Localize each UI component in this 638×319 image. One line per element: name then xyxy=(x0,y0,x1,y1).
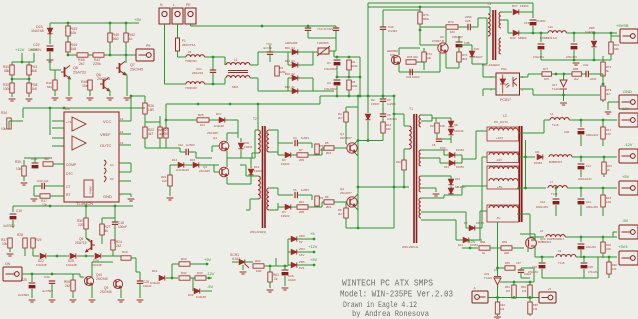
capacitor C4 1u50V upper xyxy=(295,140,297,146)
resistor R9 2k2 xyxy=(315,196,319,206)
resistor R60 100 xyxy=(608,257,610,262)
ground xyxy=(118,300,125,302)
wire xyxy=(232,261,239,263)
wire xyxy=(336,66,338,77)
capacitor C29 470u/16V xyxy=(583,257,585,262)
wire xyxy=(34,185,42,187)
inductor L11 BOBBIN2.6-6 xyxy=(548,31,566,33)
svg-text:10k: 10k xyxy=(1,127,7,131)
wire xyxy=(277,152,279,155)
capacitor C32 1uF xyxy=(42,183,44,189)
svg-text:BOBBIN5-5: BOBBIN5-5 xyxy=(538,241,552,244)
svg-text:D11: D11 xyxy=(535,150,540,154)
svg-text:C3B: C3B xyxy=(464,41,470,45)
svg-text:R11: R11 xyxy=(299,200,304,204)
svg-text:100: 100 xyxy=(544,77,549,81)
wire T3 pins right top xyxy=(501,11,512,13)
diode B01_03 xyxy=(292,62,298,67)
wire xyxy=(432,117,436,119)
svg-text:C1: C1 xyxy=(110,163,114,167)
wire +12V out xyxy=(519,132,545,134)
svg-text:470u/16V: 470u/16V xyxy=(533,55,544,59)
svg-text:FR102: FR102 xyxy=(281,162,290,166)
wire xyxy=(462,158,472,160)
wire mid bus y=104 xyxy=(166,103,320,105)
svg-text:C8: C8 xyxy=(432,143,436,147)
svg-text:2u2/50V: 2u2/50V xyxy=(18,293,29,297)
wire xyxy=(67,52,69,55)
wire xyxy=(593,48,595,60)
diode B01_01 xyxy=(292,88,298,93)
thyristor SCR1 IL343 xyxy=(239,259,245,264)
ground xyxy=(267,290,274,292)
wire R34 to U3 pin1 xyxy=(8,121,10,129)
svg-text:AMPL086: AMPL086 xyxy=(285,41,298,45)
svg-text:10k: 10k xyxy=(82,84,88,88)
svg-text:R19: R19 xyxy=(181,257,187,261)
capacitor YC3 4n7/1kV xyxy=(305,28,311,30)
wire xyxy=(125,42,127,55)
zener diode ZD5 6V2 xyxy=(291,262,297,267)
wire xyxy=(540,50,542,60)
svg-text:R6: R6 xyxy=(325,195,329,199)
wire xyxy=(420,44,438,46)
resistor RT8 200 xyxy=(406,60,416,64)
svg-text:10k: 10k xyxy=(500,307,505,311)
svg-text:5k: 5k xyxy=(105,229,109,233)
resistor R28 2k2 xyxy=(23,238,27,248)
wire bulk rail top xyxy=(334,56,360,58)
svg-text:FR153: FR153 xyxy=(456,165,464,169)
ground xyxy=(7,254,14,256)
ground xyxy=(494,317,501,319)
wire xyxy=(421,175,451,177)
wire varistor to bulk caps xyxy=(329,50,334,52)
wire xyxy=(611,35,620,37)
capacitor C10b 1800u/16V xyxy=(555,188,557,197)
resistor R32 2k2 xyxy=(179,276,190,280)
svg-text:R60: R60 xyxy=(612,263,617,267)
svg-text:1k5: 1k5 xyxy=(71,47,77,51)
wire xyxy=(297,194,312,196)
wire -12V channel xyxy=(519,156,536,158)
wire xyxy=(565,236,617,238)
svg-text:10R: 10R xyxy=(440,124,445,128)
svg-text:2SC945: 2SC945 xyxy=(97,77,110,81)
wire +5V rail top-left xyxy=(50,22,139,24)
wire xyxy=(47,255,69,257)
svg-text:VREF: VREF xyxy=(100,132,111,137)
resistor R43 62k xyxy=(67,23,69,26)
svg-text:10k: 10k xyxy=(533,307,538,311)
svg-text:C3: C3 xyxy=(327,81,331,85)
svg-text:12: 12 xyxy=(120,117,124,121)
svg-text:Q10: Q10 xyxy=(540,237,546,241)
resistor R30 220 xyxy=(84,218,88,229)
svg-text:560: 560 xyxy=(113,37,119,41)
capacitor C10 1u/50V xyxy=(186,149,188,155)
svg-text:+12V: +12V xyxy=(620,106,630,111)
svg-text:R77: R77 xyxy=(543,67,549,71)
resistor R17b 120 xyxy=(602,120,604,127)
svg-text:+5V: +5V xyxy=(30,47,38,52)
svg-text:1N4748: 1N4748 xyxy=(31,29,44,33)
wire Q1 emitter xyxy=(355,153,358,156)
svg-text:1K2: 1K2 xyxy=(200,123,205,127)
wire xyxy=(224,57,226,65)
wire xyxy=(179,148,181,152)
resistor R61 1k xyxy=(268,272,272,282)
svg-text:15R: 15R xyxy=(148,108,155,112)
svg-text:1N4148: 1N4148 xyxy=(150,281,160,285)
ground xyxy=(9,99,16,101)
svg-text:L3: L3 xyxy=(503,114,507,118)
svg-text:Q7: Q7 xyxy=(130,63,135,67)
svg-text:1k5: 1k5 xyxy=(522,289,527,293)
wire -5V to choke xyxy=(480,239,482,241)
wire xyxy=(398,48,400,55)
diode D3 FR102 xyxy=(285,152,291,157)
wire +3V3 junctions xyxy=(541,257,543,262)
wire xyxy=(420,26,446,28)
diode D31 FR107 xyxy=(469,51,474,57)
connector PE xyxy=(185,8,196,24)
capacitor C12 220u/16V xyxy=(580,237,582,242)
svg-text:22nF: 22nF xyxy=(590,77,597,81)
wire long vertical x=394 xyxy=(393,96,395,228)
svg-text:D15: D15 xyxy=(190,158,196,162)
ground xyxy=(21,183,28,185)
wire xyxy=(421,219,456,221)
wire xyxy=(608,274,610,278)
wire 5V rect to choke xyxy=(462,185,476,187)
svg-text:Q8: Q8 xyxy=(73,66,78,70)
wire TL431 ref rail xyxy=(533,94,600,96)
svg-text:1N4148: 1N4148 xyxy=(36,263,47,267)
svg-text:+5V: +5V xyxy=(134,17,142,22)
svg-text:RT8 200: RT8 200 xyxy=(407,55,418,59)
svg-text:4k7: 4k7 xyxy=(606,92,611,96)
wire xyxy=(613,256,617,258)
svg-text:+12V: +12V xyxy=(466,239,476,244)
svg-text:L4: L4 xyxy=(550,112,554,116)
resistor R63 1k5 xyxy=(528,285,532,298)
svg-text:B01_01: B01_01 xyxy=(285,85,295,89)
svg-text:R64: R64 xyxy=(500,303,505,307)
wire xyxy=(297,142,312,144)
wire PH1 pin1 to rail xyxy=(520,76,529,78)
wire PE to earth bus xyxy=(190,24,192,26)
wire xyxy=(214,171,219,173)
wire xyxy=(567,187,617,189)
wire xyxy=(451,194,462,196)
resistor RT6 680k xyxy=(418,12,422,24)
zener diode D23 1N4748 xyxy=(47,28,52,34)
resistor R25 1K2 xyxy=(197,118,209,122)
resistor R15 10R xyxy=(435,123,439,133)
svg-text:1NF/1kV: 1NF/1kV xyxy=(387,117,397,121)
wire xyxy=(120,288,122,298)
L3 winding +12V xyxy=(487,127,519,141)
wire xyxy=(114,206,116,222)
wire TL431 ref rail 2 xyxy=(500,281,534,283)
ground xyxy=(47,60,54,62)
svg-text:-12V: -12V xyxy=(496,158,502,162)
diode D22b 1N4148 xyxy=(194,288,200,293)
svg-text:2k7: 2k7 xyxy=(338,116,343,120)
diode B01_02 xyxy=(292,75,298,80)
wire xyxy=(288,251,291,253)
svg-text:Drawn in Eagle 4.12: Drawn in Eagle 4.12 xyxy=(343,302,417,310)
resistor R19b 1k xyxy=(121,256,131,260)
svg-text:1N4148: 1N4148 xyxy=(214,124,224,128)
wire +5V feed xyxy=(33,53,35,62)
wire xyxy=(212,145,219,147)
wire half-bridge vertical x=358 xyxy=(357,96,359,228)
svg-text:C6: C6 xyxy=(387,113,391,117)
wire xyxy=(166,277,178,279)
wire xyxy=(51,283,53,298)
svg-text:2SA733: 2SA733 xyxy=(73,71,86,75)
resistor R38 1k8 xyxy=(27,83,31,93)
svg-text:B01_04: B01_04 xyxy=(285,46,295,50)
capacitor C37 100uF xyxy=(518,270,524,272)
svg-text:C42: C42 xyxy=(583,63,589,67)
svg-text:FR153: FR153 xyxy=(456,148,464,152)
resistor R50 1k xyxy=(479,246,490,250)
resistor R29 2k2 xyxy=(31,238,35,248)
svg-text:2SC945: 2SC945 xyxy=(199,169,210,173)
wire xyxy=(284,266,286,270)
resistor R45 2k7 xyxy=(77,53,88,57)
resistor R27 5k xyxy=(100,224,104,235)
L3 winding -5V xyxy=(487,205,519,222)
wire xyxy=(345,107,347,112)
shunt regulator U17 TL431 xyxy=(560,80,567,87)
resistor RT4 10k xyxy=(422,52,426,62)
wire xyxy=(613,187,617,189)
svg-text:220: 220 xyxy=(78,223,84,227)
svg-text:1N4728: 1N4728 xyxy=(585,30,595,34)
op-amp error amplifier 2 inside U3 xyxy=(72,136,86,150)
wire xyxy=(169,165,171,175)
wire xyxy=(497,285,499,298)
svg-text:B01_02: B01_02 xyxy=(285,72,295,76)
svg-text:R25: R25 xyxy=(198,113,204,117)
svg-text:L: L xyxy=(173,3,175,7)
wire xyxy=(54,90,56,96)
ground xyxy=(240,272,247,274)
svg-text:1800u/16V: 1800u/16V xyxy=(586,206,598,209)
opto transistor inside PH1 xyxy=(513,77,517,87)
svg-text:250V/T5A: 250V/T5A xyxy=(182,43,195,47)
transistor Q1 2SC4077 upper xyxy=(347,143,357,153)
svg-text:22R: 22R xyxy=(606,247,611,251)
capacitor C39 1N/4kV xyxy=(382,10,384,27)
resistor R48 560 xyxy=(109,23,111,33)
wire xyxy=(580,205,582,216)
wire N down xyxy=(164,24,166,57)
svg-text:PC_OUT2: PC_OUT2 xyxy=(494,120,508,124)
wire Q8 base xyxy=(50,69,61,71)
resistor R34 10k xyxy=(7,118,11,129)
diode D17b 1N4148 xyxy=(219,117,225,122)
wire VCC net xyxy=(130,96,132,121)
svg-text:C5027-R: C5027-R xyxy=(432,39,445,43)
transistor Q5 2SA715 xyxy=(86,238,95,251)
svg-text:-5V: -5V xyxy=(622,218,629,223)
wire T3 primary xyxy=(486,18,488,45)
svg-text:L1: L1 xyxy=(234,58,238,62)
ground xyxy=(573,63,580,65)
wire xyxy=(423,48,425,52)
wire xyxy=(49,108,51,135)
wire xyxy=(470,26,478,28)
wire xyxy=(419,7,421,12)
svg-text:220k: 220k xyxy=(93,62,101,66)
svg-text:1u250V: 1u250V xyxy=(387,102,396,106)
transistor Q4 2SC945 xyxy=(219,167,229,177)
wire xyxy=(72,274,74,280)
wire xyxy=(421,211,466,213)
capacitor C20 1800u/16V xyxy=(580,120,582,127)
ground xyxy=(560,103,567,105)
svg-text:R63: R63 xyxy=(521,285,526,289)
wire xyxy=(34,195,40,197)
svg-text:PE: PE xyxy=(186,3,191,7)
wire xyxy=(541,269,543,278)
wire choke out bottom xyxy=(250,77,258,79)
capacitor C2 470u/200V lower xyxy=(334,80,341,85)
wire xyxy=(602,207,604,216)
capacitor XC1 220n X2 xyxy=(210,70,216,72)
wire T2 right pins lower xyxy=(269,187,278,189)
capacitor C14b 1800uF/16V xyxy=(580,157,582,162)
svg-text:R34: R34 xyxy=(1,111,7,115)
capacitor C26 100nF xyxy=(282,270,289,275)
ground xyxy=(49,300,56,302)
wire xyxy=(11,75,13,83)
resistor R36 56k xyxy=(43,162,53,166)
wire xyxy=(610,54,612,60)
wire mosfet source to L9 xyxy=(534,246,536,257)
svg-text:C20: C20 xyxy=(564,130,570,134)
resistor R6 2R2 xyxy=(324,200,334,204)
svg-text:C2: C2 xyxy=(110,177,114,181)
svg-text:THR B05: THR B05 xyxy=(317,41,329,45)
svg-text:PH1-16AE03: PH1-16AE03 xyxy=(482,63,500,67)
diode D32 SB360 xyxy=(513,30,519,35)
svg-text:220n/X2: 220n/X2 xyxy=(192,71,204,75)
diode D28 1N4148 xyxy=(70,253,76,258)
svg-text:220k: 220k xyxy=(280,70,287,74)
svg-text:15V: 15V xyxy=(299,253,304,257)
wire xyxy=(602,100,604,102)
wire primary bus bottom xyxy=(334,95,394,97)
svg-text:14: 14 xyxy=(120,130,124,134)
wire xyxy=(367,3,369,7)
svg-text:2k2: 2k2 xyxy=(574,77,579,81)
svg-text:1k: 1k xyxy=(129,37,133,41)
svg-text:C16: C16 xyxy=(16,209,22,213)
capacitor C1 470u/200V upper xyxy=(334,60,341,65)
svg-text:680k: 680k xyxy=(423,17,430,21)
svg-text:2SC945: 2SC945 xyxy=(207,131,218,135)
diode D21 1N4148 xyxy=(159,275,165,280)
svg-text:2k2: 2k2 xyxy=(116,244,121,248)
MOSFET Q10b PHP45N03LT xyxy=(526,238,537,249)
diode D22 1N4148 xyxy=(40,253,46,258)
capacitor C42 22nF xyxy=(586,71,588,77)
svg-text:2k7: 2k7 xyxy=(79,62,85,66)
capacitor C11 1800u/16V xyxy=(580,188,582,197)
ground xyxy=(167,198,174,200)
wire xyxy=(171,264,173,278)
resistor R47 220k xyxy=(93,53,104,57)
svg-text:470u/200V: 470u/200V xyxy=(324,87,337,91)
resistor R22 1k8 xyxy=(168,175,172,186)
wire xyxy=(201,290,212,292)
wire horizontal bus y=206 xyxy=(13,205,133,207)
wire xyxy=(335,26,337,28)
svg-text:TL494CN: TL494CN xyxy=(76,201,93,206)
PWM comparator box inside U3 xyxy=(84,180,93,197)
svg-text:C43 100nF: C43 100nF xyxy=(406,75,420,79)
ground xyxy=(29,300,36,302)
svg-text:RT: RT xyxy=(66,193,70,197)
wire xyxy=(269,282,271,288)
wire xyxy=(67,36,69,42)
svg-text:100nF: 100nF xyxy=(288,278,296,282)
wire xyxy=(555,205,557,216)
svg-text:47u50V: 47u50V xyxy=(536,19,546,23)
svg-text:TL16: TL16 xyxy=(552,123,559,127)
wire Q10 collector xyxy=(91,262,93,277)
diode D2 FR107 xyxy=(365,114,370,120)
svg-text:2k7: 2k7 xyxy=(338,212,343,216)
svg-text:D10: D10 xyxy=(455,177,461,181)
svg-text:4n7/AV: 4n7/AV xyxy=(263,46,272,50)
resistor R64 10k xyxy=(495,302,499,314)
svg-text:Q5b: Q5b xyxy=(390,53,396,57)
resistor RT3 5k xyxy=(601,62,605,76)
wire xyxy=(613,119,617,121)
wire to upper gate RC xyxy=(278,142,293,144)
wire xyxy=(177,51,179,57)
svg-text:by Andrea Ronesova: by Andrea Ronesova xyxy=(352,311,429,319)
inductor L4 TL16 xyxy=(550,118,569,120)
svg-text:100: 100 xyxy=(450,30,455,34)
wire choke out top xyxy=(250,64,258,66)
svg-text:WIN-2319(3): WIN-2319(3) xyxy=(250,230,266,234)
wire T1 sec pin4 top xyxy=(421,114,432,116)
inductor L8 xyxy=(546,235,565,237)
wire xyxy=(513,297,515,300)
svg-text:2k2: 2k2 xyxy=(65,284,70,288)
svg-text:2R2: 2R2 xyxy=(326,151,332,155)
capacitor YC4 4n7/1kV xyxy=(333,28,339,30)
ground xyxy=(137,300,144,302)
svg-text:WINTECH PC ATX SMPS: WINTECH PC ATX SMPS xyxy=(342,278,433,289)
resistor R26 15R xyxy=(144,96,146,103)
wire xyxy=(9,248,11,252)
wire xyxy=(613,231,617,233)
svg-text:RT2: RT2 xyxy=(448,20,454,24)
svg-text:Model: WIN-235PE Ver.2.03: Model: WIN-235PE Ver.2.03 xyxy=(340,289,453,300)
svg-text:T1: T1 xyxy=(409,107,413,111)
ground xyxy=(70,300,77,302)
svg-text:R61: R61 xyxy=(505,285,510,289)
